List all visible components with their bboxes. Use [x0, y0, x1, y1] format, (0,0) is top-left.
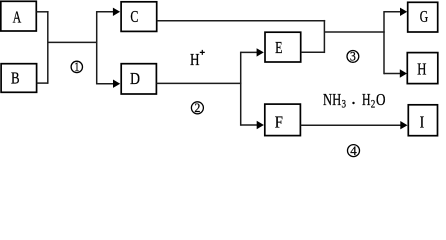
svg-text:4: 4	[350, 143, 357, 158]
svg-text:2: 2	[371, 97, 376, 111]
circled 1	[71, 59, 82, 74]
svg-text:H: H	[417, 59, 426, 78]
label NH3·H2O	[323, 90, 386, 110]
svg-text:A: A	[13, 8, 22, 27]
wire C-E join vertical	[323, 20, 325, 53]
svg-text:3: 3	[350, 49, 356, 64]
box C	[121, 2, 157, 32]
wire A to junction	[36, 11, 48, 13]
box F	[265, 104, 301, 136]
circled 4	[348, 143, 360, 158]
wire split vertical G-H	[383, 11, 385, 74]
arrow to H	[384, 69, 407, 77]
box H	[407, 53, 438, 84]
arrow to F	[241, 121, 264, 129]
wire junction vertical A-B	[47, 11, 49, 84]
box I	[408, 105, 437, 136]
wire to G-H split	[324, 31, 384, 33]
svg-text:H: H	[190, 50, 200, 69]
svg-text:E: E	[275, 38, 282, 57]
wire B to junction	[37, 82, 48, 84]
circled 3	[347, 49, 359, 64]
box B	[1, 64, 37, 93]
svg-text:NH: NH	[323, 90, 341, 109]
box G	[408, 2, 438, 32]
svg-text:I: I	[420, 112, 425, 131]
wire D out	[156, 82, 241, 84]
wire split vertical E-F	[240, 52, 242, 126]
box A	[1, 1, 37, 31]
arrow to D	[97, 80, 121, 88]
svg-text:D: D	[130, 69, 140, 88]
svg-text:3: 3	[342, 97, 347, 111]
svg-text:G: G	[420, 7, 428, 26]
arrow to G	[384, 8, 407, 16]
arrow to E	[241, 48, 264, 56]
wire branch horizontal	[48, 41, 97, 43]
box D	[121, 64, 156, 94]
svg-text:1: 1	[74, 59, 79, 74]
circled 2	[191, 100, 203, 115]
arrow to C	[97, 8, 120, 16]
wire E out	[301, 51, 325, 53]
svg-text:2: 2	[194, 100, 200, 115]
svg-text:F: F	[275, 112, 283, 131]
svg-text:B: B	[11, 69, 20, 88]
svg-text:C: C	[130, 7, 138, 26]
box E	[265, 32, 301, 62]
label H+	[190, 50, 205, 69]
svg-text:O: O	[376, 90, 386, 109]
arrow F to I	[300, 121, 407, 129]
svg-text:H: H	[362, 90, 371, 109]
wire C out	[157, 20, 325, 22]
wire split vertical C-D	[96, 11, 98, 84]
